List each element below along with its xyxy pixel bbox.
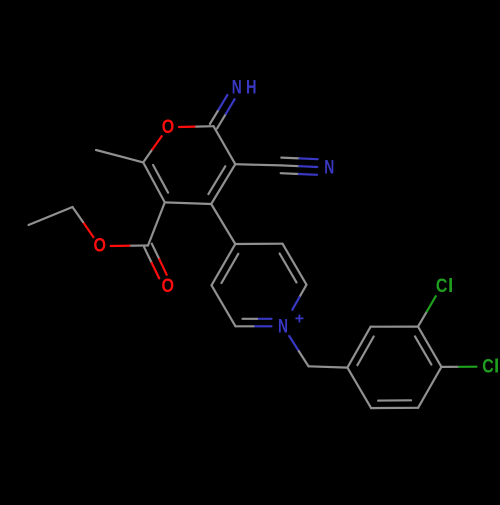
double bond N+=C2p — [254, 325, 272, 327]
bond C-Cl2 — [441, 366, 459, 368]
bond C2-C3 — [214, 126, 236, 164]
bond C3-C nitrile — [235, 164, 281, 165]
svg-text:C: C — [436, 276, 448, 297]
bond C2p-C3p — [212, 285, 236, 326]
svg-text:+: + — [295, 311, 304, 328]
bond C4p-C5p — [235, 243, 282, 246]
bond O1-C2 — [179, 125, 196, 128]
bond C-Cl1 — [418, 311, 427, 326]
double bond m2=o2 — [371, 407, 418, 410]
triple bond C#N nitrile — [281, 164, 299, 167]
bond C-O ester — [129, 244, 148, 246]
svg-text:N: N — [232, 78, 242, 99]
double bond C3p=C4p — [212, 244, 236, 285]
svg-text:O: O — [162, 117, 175, 138]
double bond C5p=C6p — [283, 244, 307, 285]
bond o1-vCl1 — [371, 326, 418, 328]
double bond C2=NH imine — [217, 114, 226, 129]
svg-text:C: C — [482, 357, 494, 378]
double bond ipso=o1 — [347, 327, 370, 368]
svg-text:O: O — [93, 236, 106, 257]
bond C6-O1 — [143, 149, 152, 162]
bond N+-CH2 benzyl — [289, 336, 299, 351]
bond C6-CH3 methyl — [96, 150, 143, 162]
bond C5-C ester — [148, 202, 165, 245]
double bond vCl1=vCl2 — [418, 327, 441, 367]
double bond C3=C4 — [211, 164, 235, 204]
bond C4-C4p link — [211, 204, 235, 244]
bond C6p-Np — [299, 285, 306, 298]
svg-text:l: l — [448, 276, 453, 297]
bond C4-C5 — [165, 202, 211, 204]
svg-text:N: N — [278, 316, 288, 337]
double bond C5=C6 — [143, 162, 165, 202]
bond CH2-ipso — [309, 366, 348, 367]
svg-text:O: O — [161, 276, 174, 297]
bond o2-ipso — [347, 368, 371, 409]
bond CH2-CH3 ethyl — [29, 207, 73, 225]
svg-text:N: N — [324, 158, 334, 179]
svg-text:H: H — [246, 78, 257, 99]
svg-text:l: l — [494, 357, 499, 378]
bond vCl2-m2 — [418, 367, 441, 408]
double bond C=O carbonyl — [144, 247, 152, 263]
bond O-CH2 ethyl — [83, 222, 93, 237]
